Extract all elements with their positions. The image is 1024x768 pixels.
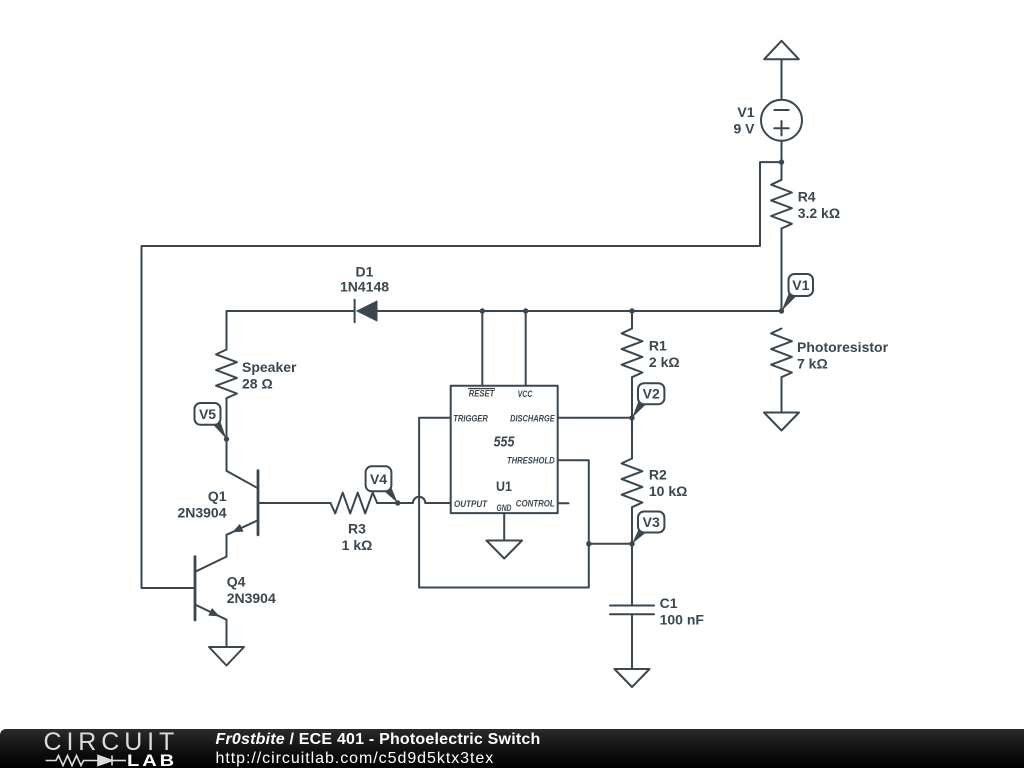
wire: Q1 emitter to Q4 collector — [226, 535, 228, 557]
label V1 9V — [733, 104, 755, 136]
svg-text:10 kΩ: 10 kΩ — [649, 483, 687, 499]
junction dot at VCC riser — [523, 308, 528, 313]
wire: CONTROL pin stub — [558, 502, 569, 504]
node V5 junction dot — [224, 436, 229, 441]
label Q4 value — [227, 573, 276, 606]
svg-text:TRIGGER: TRIGGER — [453, 414, 488, 425]
svg-text:Q4: Q4 — [227, 573, 246, 589]
ground below C1 — [615, 669, 650, 687]
svg-text:7 kΩ: 7 kΩ — [797, 355, 828, 371]
label D1 value — [340, 263, 389, 294]
555 IC U1 box — [451, 386, 558, 513]
svg-text:U1: U1 — [496, 478, 512, 494]
U1 pin OUTPUT — [454, 499, 488, 510]
footer url — [216, 751, 495, 767]
logo resistor-diode glyph — [46, 756, 126, 766]
resistor R1 — [622, 329, 643, 378]
svg-text:VCC: VCC — [518, 389, 533, 400]
label photoresistor value — [797, 339, 889, 372]
svg-text:1N4148: 1N4148 — [340, 278, 389, 294]
wire: RESET pin riser — [481, 311, 483, 386]
node V3 label flag — [632, 512, 664, 544]
svg-text:V1: V1 — [792, 277, 809, 293]
label R1 value — [649, 338, 680, 371]
svg-text:2N3904: 2N3904 — [227, 590, 276, 606]
svg-text:1 kΩ: 1 kΩ — [342, 537, 373, 553]
wire hop over trigger riser — [413, 497, 425, 503]
wire: TRIGGER loop to THRESHOLD — [419, 418, 589, 588]
svg-text:9 V: 9 V — [733, 120, 755, 136]
svg-text:V3: V3 — [643, 514, 660, 530]
power flag VDD arrow — [764, 41, 799, 100]
node V2 junction dot — [629, 415, 634, 420]
svg-text:R2: R2 — [649, 467, 667, 483]
wire: R2 bottom to node V3 — [631, 507, 633, 544]
wire: DISCHARGE pin to node V2 — [558, 417, 632, 419]
U1 device type 555 — [494, 435, 516, 451]
svg-text:R1: R1 — [649, 338, 667, 354]
svg-text:R4: R4 — [798, 188, 816, 204]
wire: VCC pin riser — [525, 311, 527, 386]
svg-text:OUTPUT: OUTPUT — [454, 499, 488, 510]
photoresistor zigzag — [771, 329, 792, 378]
U1 pin CONTROL — [516, 499, 555, 510]
junction dot at R1 top — [629, 308, 634, 313]
svg-text:D1: D1 — [356, 263, 374, 279]
label speaker value — [242, 359, 297, 392]
wire: GND pin to ground symbol — [503, 513, 505, 540]
svg-text:28 Ω: 28 Ω — [242, 376, 273, 392]
wire: Q4 emitter to ground — [226, 620, 228, 647]
capacitor C1 — [610, 606, 654, 615]
label R3 value — [342, 521, 373, 554]
ground below photoresistor — [764, 413, 799, 431]
wire: hop to OUTPUT pin — [425, 502, 450, 504]
wire: R1 bottom to node V2 — [631, 377, 633, 418]
node V2 label flag — [632, 383, 664, 418]
label R4 value — [798, 188, 840, 221]
wire: R4 bottom to node V1 — [781, 229, 783, 312]
U1 pin RESET (active low) — [468, 389, 495, 400]
junction dot on threshold riser — [586, 541, 591, 546]
wire: speaker bottom to Q1 collector — [226, 398, 228, 471]
voltage source V1 9V — [761, 100, 802, 141]
wire: node V2 to R2 top — [631, 418, 633, 459]
logo LAB text — [127, 752, 177, 768]
svg-text:RESET: RESET — [469, 389, 496, 400]
svg-text:GND: GND — [497, 503, 512, 514]
svg-text:555: 555 — [494, 435, 516, 451]
svg-text:C1: C1 — [660, 595, 678, 611]
label Q1 value — [177, 488, 226, 521]
node V4 label flag — [366, 466, 398, 503]
diode D1 — [355, 300, 378, 322]
svg-text:Q1: Q1 — [208, 488, 227, 504]
U1 pin THRESHOLD — [507, 456, 555, 467]
transistor Q4 — [195, 557, 227, 620]
wire: V1 positive to R4 top and left bypass branch — [142, 141, 782, 588]
svg-text:3.2 kΩ: 3.2 kΩ — [798, 205, 840, 221]
U1 designator — [496, 478, 512, 494]
svg-text:100 nF: 100 nF — [660, 612, 705, 628]
wire: R1 top lead — [631, 311, 633, 329]
svg-text:Photoresistor: Photoresistor — [797, 339, 889, 355]
svg-text:2N3904: 2N3904 — [177, 505, 226, 521]
wire: R3 right to node V4 — [377, 502, 413, 504]
resistor R2 — [622, 459, 643, 508]
svg-text:DISCHARGE: DISCHARGE — [510, 414, 555, 425]
ground below Q4 — [209, 647, 244, 666]
svg-text:V5: V5 — [199, 406, 216, 422]
U1 pin GND — [497, 503, 512, 514]
junction dot at RESET riser — [480, 308, 485, 313]
label C1 value — [660, 595, 705, 628]
node junction below V1 source — [779, 159, 784, 164]
svg-text:CONTROL: CONTROL — [516, 499, 555, 510]
wire: threshold riser junction to node V3 — [589, 543, 632, 545]
node V1 junction dot — [779, 308, 784, 313]
svg-text:V4: V4 — [370, 471, 387, 487]
speaker (resistor symbol) — [216, 350, 237, 399]
resistor R3 — [331, 493, 378, 514]
svg-text:R3: R3 — [348, 521, 366, 537]
node V4 junction dot — [395, 500, 400, 505]
wire: node V3 to C1 top plate — [631, 544, 633, 606]
CircuitLab logo — [44, 728, 180, 757]
wire: Q1 base to R3 left — [258, 502, 331, 504]
svg-text:Speaker: Speaker — [242, 359, 297, 375]
footer bar — [0, 729, 1024, 768]
U1 pin TRIGGER — [453, 414, 488, 425]
transistor Q1 — [227, 471, 259, 535]
wire: main horizontal net at y=311 (node V1 row) — [378, 310, 782, 312]
svg-text:V2: V2 — [643, 386, 660, 402]
ground below 555 GND pin — [487, 541, 523, 559]
node V1 label flag — [782, 274, 814, 311]
footer title — [216, 732, 541, 748]
svg-text:V1: V1 — [737, 104, 754, 120]
U1 pin DISCHARGE — [510, 414, 555, 425]
wire: C1 bottom plate to ground — [631, 614, 633, 669]
wire: diode cathode to speaker top corner — [227, 311, 355, 350]
node V3 junction dot — [629, 541, 634, 546]
svg-text:THRESHOLD: THRESHOLD — [507, 456, 555, 467]
U1 pin VCC — [518, 389, 533, 400]
resistor R4 — [771, 180, 792, 229]
label R2 value — [649, 467, 687, 500]
wire: photoresistor bottom to ground — [781, 377, 783, 412]
node V5 label flag — [195, 403, 227, 439]
svg-text:2 kΩ: 2 kΩ — [649, 354, 680, 370]
